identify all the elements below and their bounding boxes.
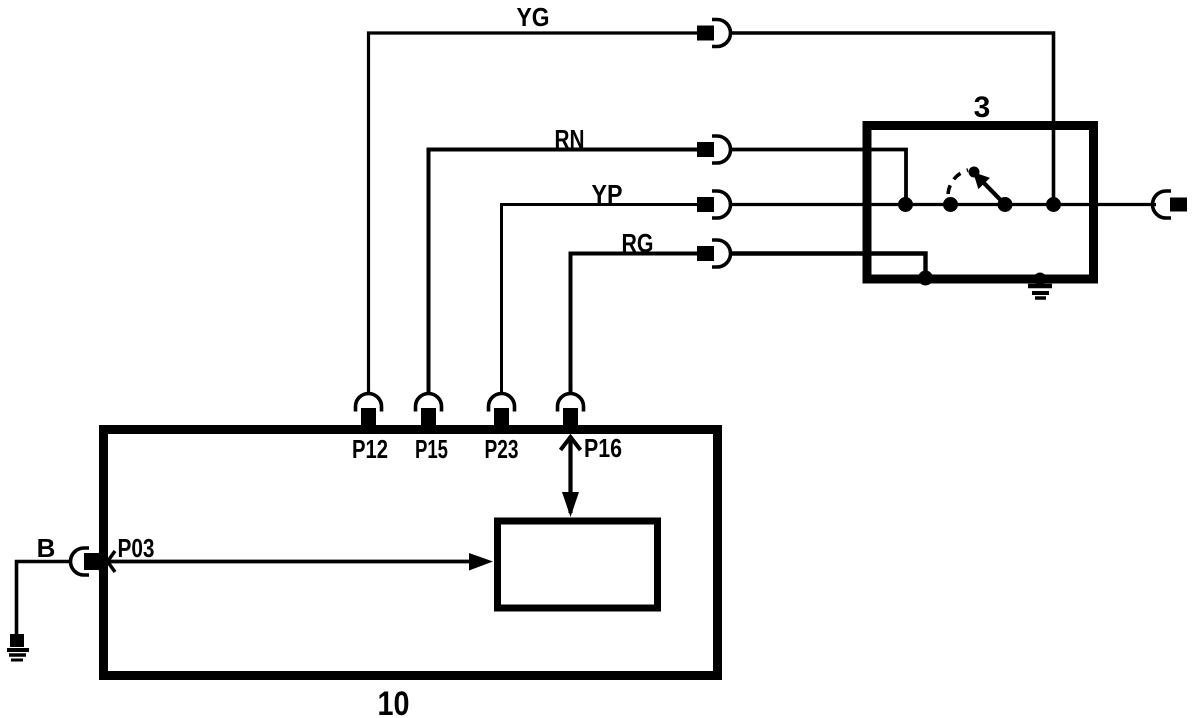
svg-text:P03: P03 — [118, 533, 155, 563]
svg-text:RN: RN — [555, 124, 585, 154]
pin P16 — [558, 394, 584, 429]
switch travel dashed arc — [948, 170, 968, 194]
connector YP — [697, 191, 730, 218]
connector YG — [697, 20, 731, 47]
svg-text:YG: YG — [517, 2, 550, 32]
pin P15 — [416, 394, 442, 429]
wire YP connector through switch box to right connector — [730, 203, 1157, 206]
pin P12 — [356, 394, 382, 429]
function block — [498, 521, 658, 608]
wire P16 to RG connector — [571, 254, 698, 394]
wire B to ground — [17, 562, 72, 638]
control unit box 10 — [104, 430, 718, 676]
wire P15 to RN connector — [429, 150, 698, 394]
switch wiper arm with arrowhead — [973, 172, 1003, 203]
connector RG — [697, 240, 731, 267]
internal wire P16 to function block, double arrow — [561, 436, 581, 517]
svg-text:10: 10 — [378, 685, 410, 718]
connector right output — [1153, 191, 1187, 218]
svg-text:P15: P15 — [415, 434, 448, 464]
node terminal 3 — [998, 197, 1013, 212]
connector RN — [697, 136, 731, 163]
wire RG connector into switch box bottom — [730, 254, 926, 276]
svg-text:RG: RG — [622, 228, 654, 258]
internal wire P03 arrow to function block — [108, 553, 493, 571]
node terminal 4 — [1046, 197, 1061, 212]
wire YG connector to switch box — [730, 33, 1054, 205]
svg-text:P16: P16 — [584, 433, 622, 463]
wire P12 to YG connector — [369, 33, 698, 394]
node terminal 1 — [898, 197, 913, 212]
svg-text:P12: P12 — [352, 434, 388, 464]
junction dot RG on box bottom — [918, 271, 933, 286]
crimp mark X at P03 — [100, 551, 115, 572]
svg-text:YP: YP — [592, 179, 623, 209]
connector P03 / B — [71, 548, 101, 575]
wire RN connector into switch box — [730, 150, 907, 205]
svg-text:3: 3 — [974, 91, 991, 124]
ground at switch box bottom — [1028, 273, 1052, 299]
svg-text:B: B — [37, 533, 56, 563]
switch wiper position dot — [969, 167, 980, 178]
pin P23 — [489, 394, 515, 429]
ground B — [7, 634, 29, 660]
wire P23 to YP connector — [502, 205, 698, 394]
node terminal 2 — [943, 197, 958, 212]
svg-text:P23: P23 — [485, 434, 519, 464]
switch box 3 — [867, 126, 1094, 280]
